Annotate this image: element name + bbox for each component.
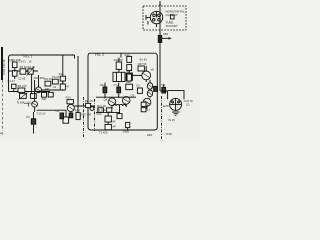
resistor R9 bbox=[45, 81, 51, 86]
svg-text:VOL: VOL bbox=[96, 112, 102, 116]
node dot d bbox=[104, 97, 105, 98]
resistor R12 bbox=[60, 84, 65, 90]
ground bus wire y91 bbox=[9, 91, 51, 93]
wire bracket stub bbox=[24, 103, 28, 106]
svg-text:C2 05: C2 05 bbox=[18, 77, 26, 81]
pot arrow R4 bbox=[27, 67, 34, 76]
tube socket enclosure (dashed box) bbox=[143, 6, 186, 30]
resistor R11 bbox=[60, 76, 65, 84]
resistor R24 bbox=[127, 56, 132, 62]
resistor R19 bbox=[98, 108, 104, 112]
svg-text:4s: 4s bbox=[0, 132, 4, 136]
resistor R10 bbox=[52, 79, 58, 84]
chassis box left right edge bbox=[77, 56, 79, 113]
node dot e bbox=[118, 97, 119, 98]
resistor R15 bbox=[86, 103, 91, 107]
wire x63 bbox=[62, 55, 64, 76]
shield partition dash-dot line A bbox=[83, 97, 85, 138]
resistor R5 bbox=[18, 88, 25, 92]
transistor Q2 bbox=[36, 84, 42, 93]
transistor Q3 bbox=[67, 104, 74, 113]
svg-text:B 50K: B 50K bbox=[17, 100, 25, 104]
fuse F1 bbox=[158, 36, 172, 43]
svg-text:C1 47: C1 47 bbox=[7, 79, 15, 83]
node junction x119 bbox=[118, 72, 120, 74]
capacitor C4 bbox=[69, 113, 73, 118]
wire y75 bbox=[131, 74, 141, 76]
resistor R20 bbox=[107, 108, 112, 112]
svg-text:R11: R11 bbox=[59, 72, 64, 76]
wire x120 bbox=[119, 105, 121, 114]
resistor R14 bbox=[76, 113, 80, 120]
text margin column bbox=[2, 59, 6, 75]
svg-text:AGC: AGC bbox=[124, 53, 130, 57]
svg-text:OSC 455: OSC 455 bbox=[80, 112, 92, 116]
transformer T1 core lines bbox=[116, 72, 121, 81]
wire top bus tick bbox=[120, 53, 122, 57]
svg-text:R14: R14 bbox=[75, 109, 81, 113]
svg-text:V6: V6 bbox=[151, 68, 155, 72]
svg-text:01: 01 bbox=[53, 85, 57, 89]
transistor Q6 bbox=[142, 66, 151, 82]
wire y112 bbox=[96, 111, 120, 113]
wire x108 long bbox=[107, 112, 109, 130]
wire y110 bbox=[37, 109, 67, 111]
resistor R17 bbox=[126, 73, 132, 80]
diode D1 bbox=[90, 107, 94, 111]
wire x38 collector bbox=[38, 75, 40, 87]
wire stub x74 bbox=[74, 55, 76, 59]
wire B+ vertical line top right bbox=[159, 1, 161, 91]
transistor Q4 bbox=[108, 97, 116, 108]
svg-text:IFT: IFT bbox=[127, 69, 131, 73]
svg-text:040: 040 bbox=[147, 133, 152, 137]
svg-text:R18: R18 bbox=[126, 80, 132, 84]
svg-text:AF: AF bbox=[112, 125, 116, 129]
svg-text:R27 56: R27 56 bbox=[138, 62, 147, 66]
svg-text:T2 455: T2 455 bbox=[99, 131, 108, 135]
resistor R26 bbox=[127, 71, 131, 81]
transistor Q5 bbox=[122, 97, 130, 107]
wire y97 bbox=[96, 96, 136, 98]
svg-text:OUTPUT: OUTPUT bbox=[166, 13, 179, 17]
svg-text:4.7: 4.7 bbox=[147, 108, 151, 112]
resistor R23 bbox=[105, 124, 111, 129]
svg-text:2SC 452: 2SC 452 bbox=[34, 76, 45, 80]
resistor R3 bbox=[20, 69, 26, 74]
resistor R29 bbox=[154, 86, 158, 91]
capacitor C9 bbox=[126, 122, 130, 130]
resistor R21 bbox=[105, 116, 111, 122]
svg-text:1N60: 1N60 bbox=[123, 129, 130, 133]
resistor R4 bbox=[28, 69, 33, 74]
svg-text:22: 22 bbox=[147, 102, 151, 106]
svg-text:1K: 1K bbox=[28, 60, 32, 64]
node dot c bbox=[62, 89, 63, 90]
svg-text:FB1: FB1 bbox=[163, 32, 169, 36]
resistor R6 bbox=[20, 94, 27, 99]
resistor R8 bbox=[42, 92, 47, 97]
capacitor C2 bbox=[63, 110, 69, 123]
resistor R7b bbox=[48, 92, 53, 97]
svg-text:4X-210 SCH: 4X-210 SCH bbox=[2, 59, 6, 75]
svg-text:C5: C5 bbox=[56, 109, 60, 113]
resistor R7 bbox=[31, 94, 37, 99]
svg-text:D2: D2 bbox=[136, 84, 140, 88]
resistor R27 bbox=[138, 66, 144, 71]
wire x63b bbox=[62, 81, 64, 84]
svg-text:R16 5K: R16 5K bbox=[114, 58, 123, 62]
svg-text:R13: R13 bbox=[66, 96, 72, 100]
svg-text:5K: 5K bbox=[112, 119, 116, 123]
capacitor C7 bbox=[117, 83, 121, 98]
resistor R16 bbox=[116, 58, 121, 73]
svg-text:330: 330 bbox=[42, 97, 47, 101]
node wire y71 left bbox=[9, 70, 39, 72]
svg-text:C7+: C7+ bbox=[113, 83, 119, 87]
tube socket V1 bbox=[146, 11, 163, 27]
pilot lamp feed loop bbox=[160, 91, 184, 100]
diode D2 bbox=[147, 80, 152, 89]
svg-text:R3 4K: R3 4K bbox=[20, 65, 28, 69]
resistor R18 bbox=[126, 84, 133, 89]
svg-text:LMP: LMP bbox=[163, 104, 169, 108]
capacitor C6 bbox=[103, 83, 107, 98]
capacitor C5 bbox=[60, 113, 64, 119]
shield partition dash-dot line B bbox=[94, 99, 96, 131]
resistor R31 bbox=[141, 108, 146, 112]
svg-text:R1 10K: R1 10K bbox=[12, 58, 21, 62]
capacitor C20 in socket box bbox=[171, 15, 175, 19]
coil L2 bbox=[113, 104, 126, 106]
wire y90 mid bbox=[41, 89, 60, 91]
svg-text:B+ 9V: B+ 9V bbox=[140, 57, 148, 61]
resistor R30 bbox=[141, 102, 146, 106]
transformer T1 outline bbox=[113, 72, 125, 81]
diode D3 bbox=[147, 90, 152, 99]
node dot b bbox=[26, 71, 27, 72]
svg-text:AUX IN: AUX IN bbox=[184, 99, 193, 103]
ground below lamp bbox=[172, 112, 180, 116]
node dot a bbox=[14, 70, 15, 71]
chassis box right (rounded outline) bbox=[88, 53, 157, 130]
svg-text:W 25: W 25 bbox=[168, 118, 175, 122]
resistor R13 bbox=[67, 100, 73, 104]
svg-text:100: 100 bbox=[45, 87, 50, 91]
svg-text:SOCKET: SOCKET bbox=[166, 24, 179, 28]
shield partition dash-dot line C bbox=[161, 96, 163, 139]
resistor R25 bbox=[127, 65, 132, 71]
svg-text:R19 2K: R19 2K bbox=[97, 104, 106, 108]
svg-text:C6+: C6+ bbox=[100, 83, 106, 87]
svg-text:Q5: Q5 bbox=[131, 93, 135, 97]
svg-text:(C): (C) bbox=[186, 103, 190, 107]
svg-text:47: 47 bbox=[66, 85, 70, 89]
svg-text:R5 470: R5 470 bbox=[18, 84, 27, 88]
chassis box left (rounded outline) bbox=[9, 55, 75, 92]
transistor Q1 bbox=[32, 80, 38, 112]
svg-text:C12 10: C12 10 bbox=[36, 111, 45, 115]
scan page border left lower dashed bbox=[1, 80, 3, 131]
svg-text:048: 048 bbox=[167, 132, 172, 136]
svg-text:C8: C8 bbox=[161, 83, 165, 87]
resistor R22 bbox=[117, 114, 122, 119]
svg-text:C3: C3 bbox=[26, 115, 30, 119]
transistor Q7 bbox=[143, 98, 151, 109]
svg-text:R4 2K: R4 2K bbox=[28, 65, 36, 69]
pilot lamp DS1 bbox=[170, 98, 182, 110]
resistor R2 bbox=[12, 71, 17, 79]
svg-text:Q4: Q4 bbox=[104, 97, 108, 101]
wire y106 bbox=[74, 105, 95, 107]
svg-text:SE 1N: SE 1N bbox=[85, 99, 93, 103]
svg-text:1K 330: 1K 330 bbox=[97, 108, 106, 112]
resistor R1 bbox=[12, 62, 17, 71]
node dot B+ top bbox=[159, 3, 161, 5]
capacitor C3 bbox=[31, 112, 35, 134]
svg-text:FIG. 2: FIG. 2 bbox=[95, 53, 104, 57]
svg-text:FIG. 1: FIG. 1 bbox=[24, 54, 33, 58]
wire x31 bbox=[31, 75, 33, 94]
capacitor C1 bbox=[12, 84, 16, 91]
scan page border left bbox=[1, 47, 3, 80]
text block tube label bbox=[166, 10, 185, 29]
resistor R28 bbox=[137, 88, 142, 93]
capacitor C8 bbox=[162, 84, 166, 93]
